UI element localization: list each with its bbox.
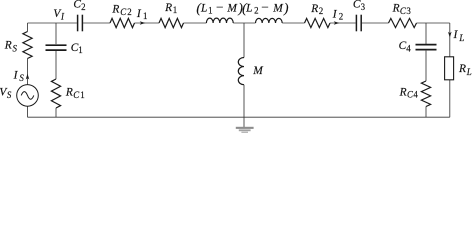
arrow I2 [334, 21, 340, 25]
resistor RC3 [389, 18, 417, 27]
svg-text:RC4: RC4 [399, 86, 419, 99]
inductor M [238, 58, 244, 85]
wire RL to bottom [449, 80, 451, 117]
inductor L2-M [256, 18, 283, 23]
wire L2 to R2 [282, 22, 304, 24]
wire VS to bottom [27, 106, 29, 117]
wire right branch top to RL [449, 23, 451, 57]
wire L1 to L2 through middle node [233, 22, 255, 24]
source VS [17, 85, 39, 107]
capacitor C4 [416, 45, 437, 50]
capacitor C2 [78, 15, 83, 32]
capacitor C3 [356, 15, 361, 32]
wire ground stub [243, 117, 245, 127]
wire middle node to M [243, 23, 245, 58]
resistor RS [23, 32, 32, 59]
svg-text:RC3: RC3 [392, 3, 412, 17]
wire node VI to C1 [55, 23, 57, 44]
svg-text:I2: I2 [332, 7, 343, 21]
wire RC3 to top-right corner [417, 22, 450, 24]
svg-text:(L1−M)(L2−M): (L1−M)(L2−M) [196, 0, 289, 16]
resistor R1 [159, 18, 184, 27]
wire C4 to RC4 [425, 51, 427, 81]
svg-text:R1: R1 [164, 2, 177, 15]
wire left branch top to RS [27, 23, 29, 32]
wire M to bottom [243, 85, 245, 118]
svg-text:C4: C4 [399, 40, 412, 53]
svg-text:I1: I1 [136, 7, 148, 21]
wire C1 to RC1 [55, 51, 57, 79]
wire bottom rail [28, 116, 450, 118]
wire C4 node to C4 [425, 23, 427, 44]
svg-text:R2: R2 [310, 3, 323, 16]
resistor RL box [445, 57, 454, 80]
svg-text:IS: IS [13, 69, 25, 84]
svg-text:VI: VI [53, 8, 65, 21]
svg-text:RS: RS [4, 40, 18, 54]
wire C3 to RC3 [362, 22, 389, 24]
svg-text:VS: VS [0, 87, 12, 101]
wire RS to VS [27, 59, 29, 85]
wire top-left corner to C2 [28, 22, 77, 24]
svg-text:RC1: RC1 [65, 87, 85, 100]
resistor RC4 [421, 81, 430, 107]
svg-text:RC2: RC2 [111, 3, 131, 17]
wire RC4 to bottom [425, 107, 427, 118]
resistor R2 [305, 18, 331, 27]
wire RC1 to bottom [55, 108, 57, 117]
wire R1 to L1 [184, 22, 207, 24]
arrow IL [448, 32, 452, 38]
wire C2 to RC2 [83, 22, 110, 24]
arrow I1 [140, 21, 146, 25]
svg-text:C1: C1 [71, 42, 83, 55]
svg-text:RL: RL [458, 63, 472, 77]
resistor RC1 [51, 79, 60, 108]
wire R2 to C3 [330, 22, 356, 24]
svg-text:C2: C2 [73, 0, 85, 12]
svg-text:IL: IL [453, 28, 465, 43]
svg-text:C3: C3 [353, 0, 366, 12]
capacitor C1 [46, 45, 67, 50]
resistor RC2 [110, 18, 135, 27]
inductor L1-M [206, 18, 233, 23]
wire RC2 to R1 [135, 22, 160, 24]
ground [236, 127, 254, 133]
svg-text:M: M [252, 65, 264, 77]
arrow IS [26, 74, 30, 80]
